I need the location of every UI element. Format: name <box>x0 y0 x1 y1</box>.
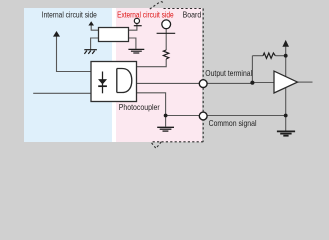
wire photocoupler output to output terminal <box>131 82 200 84</box>
arrow external supply A3 <box>282 40 289 47</box>
wire box1 top-left pin to arrow2 <box>91 25 98 30</box>
svg-text:Common signal: Common signal <box>209 118 257 128</box>
ground (right external) <box>277 131 295 135</box>
arrow internal logic A2 <box>88 21 94 25</box>
ground (common node) <box>157 127 174 131</box>
wire big terminal to resistor R2 <box>165 29 167 50</box>
internal circuit blue zone <box>24 8 112 142</box>
wire box1 bottom-left pin to chassis ground <box>91 38 99 49</box>
wire amplifier output <box>298 81 313 83</box>
white separator band <box>112 8 116 142</box>
board dashed outline <box>150 2 203 149</box>
board outline top edge <box>164 8 204 10</box>
svg-text:External circuit side: External circuit side <box>117 10 174 20</box>
junction dot common node <box>164 114 168 118</box>
wire resistor R2 to photocoupler collector pin <box>137 59 167 67</box>
wire box1 top-right pin to small terminal <box>129 23 137 30</box>
photocoupler U1 box <box>91 62 137 102</box>
wire ground stem right <box>285 116 287 131</box>
wire output terminal to junction <box>207 82 252 84</box>
wire resistor R3 left lead down to output line <box>251 56 253 83</box>
svg-text:Internal circuit side: Internal circuit side <box>42 10 97 20</box>
wire junction to amplifier input <box>252 82 274 84</box>
photocoupler LED D1 <box>98 72 107 94</box>
junction dot output line <box>250 81 254 85</box>
wire internal signal to photocoupler cathode pin <box>33 92 91 94</box>
chassis ground (internal) <box>84 50 97 54</box>
amplifier U2 triangle <box>274 71 298 93</box>
earth ground (under box1) <box>128 49 144 53</box>
svg-text:Photocoupler: Photocoupler <box>119 102 160 112</box>
junction dot pull-up top <box>284 54 288 58</box>
big terminal crossbar <box>157 32 176 34</box>
arrow internal supply A1 <box>53 31 60 37</box>
wire ground stem common node <box>165 116 167 127</box>
small terminal circle (box1 external pin) <box>134 18 139 23</box>
wire from internal supply arrow to photocoupler anode pin <box>57 36 92 72</box>
output terminal circle <box>199 80 207 88</box>
common terminal circle <box>199 112 207 120</box>
resistor R3 (horizontal zigzag) <box>263 53 275 58</box>
board outline bottom edge <box>151 141 204 143</box>
svg-text:Board: Board <box>183 10 202 20</box>
wire photocoupler emitter to common node <box>137 93 166 116</box>
big terminal circle (external supply) <box>162 20 171 29</box>
box1 internal interface component <box>99 28 129 42</box>
wire common node to common terminal <box>166 115 200 117</box>
board outline right edge <box>202 9 204 142</box>
photocoupler phototransistor D-shape <box>117 69 132 93</box>
wire right vertical from pull-up to common <box>285 47 287 116</box>
small terminal crossbar <box>134 25 142 27</box>
board outline bottom break mark <box>151 142 162 149</box>
board outline top break mark <box>150 2 164 9</box>
resistor R2 (vertical zigzag) <box>163 50 168 59</box>
wire common terminal to right vertical <box>207 115 286 117</box>
svg-text:Output terminal: Output terminal <box>205 68 252 78</box>
junction dot common right <box>284 114 288 118</box>
wire box1 bottom-right pin to earth ground <box>129 38 136 49</box>
wire resistor R3 leads <box>252 55 285 57</box>
external circuit pink zone <box>116 8 202 142</box>
